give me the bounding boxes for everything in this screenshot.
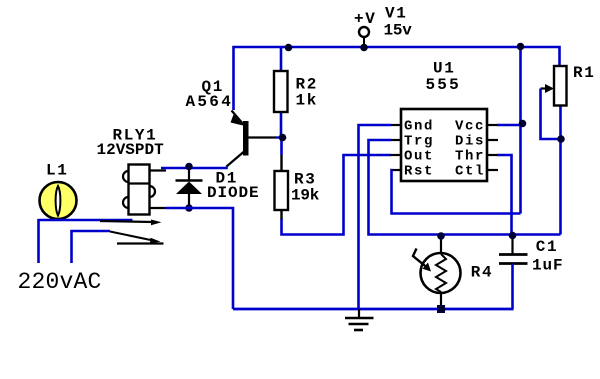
pin Trg	[391, 134, 435, 150]
svg-text:C1: C1	[536, 238, 558, 256]
relay armature with arrow	[110, 232, 161, 244]
node rail Vcc-line junction dot	[517, 43, 525, 51]
pin Out	[391, 149, 435, 165]
wire AC right stub to armature	[72, 231, 111, 263]
wire Q1 collector to relay top / D1	[161, 167, 227, 169]
wire Thr pin down to node	[497, 155, 512, 236]
photoresistor R4	[413, 236, 461, 309]
resistor R2	[274, 47, 288, 138]
svg-text:220vAC: 220vAC	[18, 269, 102, 295]
node +V junction dot	[360, 44, 368, 52]
resistor R3	[275, 138, 289, 221]
svg-text:Gnd: Gnd	[404, 119, 434, 135]
pin Dis	[455, 134, 498, 150]
svg-text:Out: Out	[404, 149, 434, 165]
ground rail	[233, 308, 514, 311]
wire Rst pin to Vcc line	[392, 170, 521, 214]
pin Rst	[392, 164, 434, 180]
svg-text:L1: L1	[46, 162, 68, 180]
node D1 top junction dot	[185, 163, 193, 171]
potentiometer R1	[541, 66, 567, 235]
capacitor C1	[499, 236, 528, 309]
wire relay bottom to ground riser	[166, 208, 233, 309]
wire top +V rail	[234, 47, 560, 110]
pin Vcc	[455, 119, 498, 135]
svg-text:1k: 1k	[296, 92, 318, 110]
transistor Q1	[227, 111, 283, 167]
svg-text:Ctl: Ctl	[455, 164, 485, 180]
relay coil RLY1	[123, 165, 166, 215]
wire R3 bottom to Out	[282, 155, 392, 235]
svg-text:A564: A564	[186, 93, 234, 111]
wire Vcc vertical from rail	[519, 47, 522, 214]
lamp L1	[40, 182, 77, 219]
relay fixed contact	[117, 242, 164, 244]
ground symbol	[345, 309, 374, 330]
wire Vcc pin to +V vertical	[497, 124, 521, 127]
svg-text:Trg: Trg	[404, 134, 434, 150]
svg-text:DIODE: DIODE	[207, 184, 260, 202]
svg-text:Vcc: Vcc	[455, 119, 485, 135]
node C1 top junction dot	[509, 232, 517, 240]
svg-text:12VSPDT: 12VSPDT	[97, 141, 165, 159]
svg-text:+V: +V	[354, 10, 376, 28]
op-amp U1 555 box	[401, 109, 487, 181]
node R4 bottom square dot	[437, 305, 445, 313]
relay contact common line with arrow	[100, 220, 162, 226]
power +V terminal V1	[359, 27, 369, 47]
svg-text:R1: R1	[573, 64, 595, 82]
svg-text:555: 555	[426, 76, 461, 94]
svg-text:19k: 19k	[291, 187, 320, 205]
svg-text:U1: U1	[433, 60, 455, 78]
wire lamp bottom blue	[38, 219, 133, 222]
wire R1 wiper down	[541, 89, 561, 140]
pin Gnd	[391, 119, 435, 135]
wire Trg pin to divider node	[369, 140, 561, 235]
pin Thr	[455, 149, 498, 165]
diode D1	[176, 168, 203, 208]
svg-text:1uF: 1uF	[532, 257, 564, 275]
svg-text:Thr: Thr	[455, 149, 485, 165]
svg-text:R4: R4	[471, 264, 493, 282]
node D1 bottom junction dot	[185, 204, 193, 212]
node Vcc junction dot	[519, 120, 527, 128]
svg-text:V1: V1	[385, 5, 407, 23]
wire Gnd pin to ground rail	[359, 125, 392, 309]
svg-text:Rst: Rst	[404, 164, 434, 180]
pin Ctl	[455, 164, 498, 180]
svg-text:15v: 15v	[384, 22, 413, 40]
node R1 wiper junction dot	[557, 135, 565, 143]
node R2 top junction dot	[285, 44, 293, 52]
node R4 top junction dot	[437, 232, 445, 240]
node Q1 base junction dot	[279, 134, 287, 142]
svg-text:Dis: Dis	[455, 134, 485, 150]
wire AC left stub	[37, 219, 40, 263]
